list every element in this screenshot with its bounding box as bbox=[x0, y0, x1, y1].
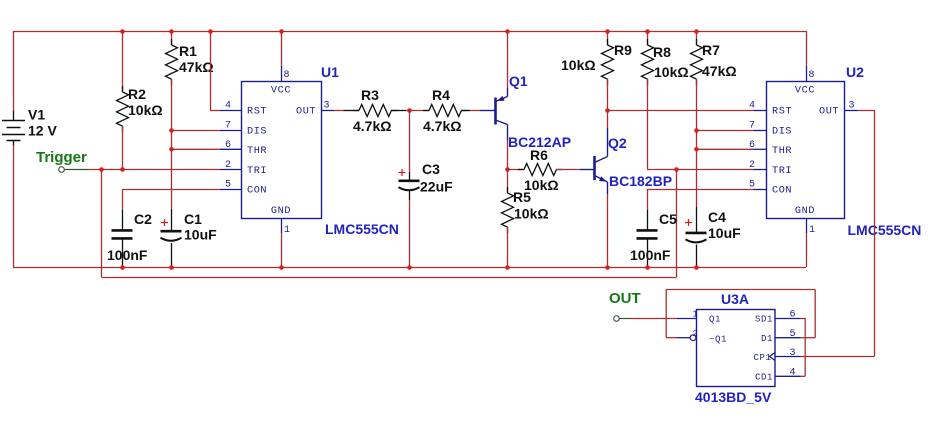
junction U1 VCC on rail bbox=[279, 29, 284, 34]
wire R3 to R4 bbox=[406, 110, 429, 112]
wire U1 OUT to R3 bbox=[334, 110, 344, 112]
junction C5 on ground rail bbox=[645, 265, 650, 270]
U1 pin stubs left bbox=[220, 110, 241, 112]
junction Q1 emitter on VCC rail bbox=[505, 29, 510, 34]
svg-text:2: 2 bbox=[225, 160, 232, 171]
svg-text:4: 4 bbox=[790, 368, 797, 379]
junction R2 top on VCC rail bbox=[120, 29, 125, 34]
junction C3 on ground rail bbox=[407, 265, 412, 270]
svg-text:LMC555CN: LMC555CN bbox=[325, 221, 399, 237]
wire TRI row to U1 pin 2 bbox=[88, 169, 220, 171]
wire CON row to U1 pin 5 bbox=[122, 189, 220, 191]
svg-text:3: 3 bbox=[324, 101, 331, 112]
junction R2 bottom on TRI row bbox=[120, 167, 125, 172]
svg-text:R5: R5 bbox=[513, 189, 531, 205]
svg-text:R2: R2 bbox=[128, 86, 146, 102]
flip-flop U3A 4013BD_5V box bbox=[697, 310, 776, 387]
resistor R8 bbox=[647, 31, 649, 45]
U2 pin 1 GND stub bbox=[806, 218, 808, 233]
wire R8 bottom to U2 TRI row bbox=[647, 169, 754, 171]
svg-text:C1: C1 bbox=[184, 211, 202, 227]
wire CP1 row to U2 OUT bbox=[801, 356, 875, 358]
junction trigger vertical on U2 TRI row bbox=[674, 167, 679, 172]
svg-text:3: 3 bbox=[790, 348, 797, 359]
U1 pin 3 OUT stub bbox=[321, 110, 334, 112]
Q1 emitter wire up to VCC rail bbox=[507, 88, 509, 97]
svg-text:CON: CON bbox=[247, 186, 267, 197]
svg-text:C4: C4 bbox=[708, 209, 726, 225]
svg-text:3: 3 bbox=[849, 101, 856, 112]
svg-text:Trigger: Trigger bbox=[36, 149, 87, 166]
svg-text:10kΩ: 10kΩ bbox=[128, 102, 163, 118]
resistor R2 bbox=[122, 31, 124, 92]
svg-text:VCC: VCC bbox=[795, 85, 815, 96]
wire SD1-CD1 tie vertical bbox=[804, 318, 806, 376]
svg-text:RST: RST bbox=[247, 107, 267, 118]
U3A pin 4 stub CD1 bbox=[775, 375, 801, 377]
junction C3 tap bbox=[407, 108, 412, 113]
wire DIS row to U2 pin 7 bbox=[696, 130, 754, 132]
svg-text:8: 8 bbox=[284, 70, 291, 81]
svg-text:10kΩ: 10kΩ bbox=[561, 57, 596, 73]
svg-text:5: 5 bbox=[225, 180, 232, 191]
svg-text:OUT: OUT bbox=[819, 107, 839, 118]
svg-text:R8: R8 bbox=[653, 44, 671, 60]
wire trigger bottom rail bbox=[102, 277, 677, 279]
U3A pin 1 stub Q1 output bbox=[677, 318, 697, 320]
svg-text:OUT: OUT bbox=[609, 290, 641, 307]
svg-text:100nF: 100nF bbox=[107, 247, 148, 263]
svg-text:22uF: 22uF bbox=[420, 179, 453, 195]
svg-text:Q2: Q2 bbox=[608, 135, 627, 151]
svg-text:7: 7 bbox=[225, 121, 232, 132]
svg-text:SD1: SD1 bbox=[755, 315, 773, 325]
U2 pin 3 OUT stub bbox=[844, 110, 858, 112]
wire VCC top rail bbox=[13, 31, 806, 33]
svg-text:TRI: TRI bbox=[772, 166, 792, 177]
junction RST vertical on VCC rail bbox=[208, 29, 213, 34]
wire SD1 to tie vertical bbox=[801, 318, 806, 320]
svg-text:4013BD_5V: 4013BD_5V bbox=[695, 389, 772, 405]
svg-text:47kΩ: 47kΩ bbox=[702, 63, 737, 79]
wire battery positive vertical bbox=[13, 31, 15, 111]
wire RST row to U1 pin 4 bbox=[210, 110, 220, 112]
junction trigger drop bbox=[99, 167, 104, 172]
svg-text:10uF: 10uF bbox=[184, 227, 217, 243]
resistor R3 bbox=[344, 110, 360, 112]
U3A pin 3 stub CP1 bbox=[775, 356, 801, 358]
svg-text:OUT: OUT bbox=[296, 107, 316, 118]
wire notQ1 feedback left vertical bbox=[665, 290, 667, 338]
svg-text:C2: C2 bbox=[134, 211, 152, 227]
svg-text:C5: C5 bbox=[659, 211, 677, 227]
svg-text:GND: GND bbox=[795, 206, 815, 217]
junction THR node bbox=[169, 147, 174, 152]
svg-text:2: 2 bbox=[693, 329, 699, 339]
svg-text:4.7kΩ: 4.7kΩ bbox=[353, 118, 391, 134]
svg-text:U2: U2 bbox=[846, 64, 864, 80]
svg-text:DIS: DIS bbox=[247, 127, 267, 138]
svg-text:~Q1: ~Q1 bbox=[709, 335, 727, 345]
U3A pin 2 stub notQ1 output with bubble bbox=[677, 337, 690, 339]
svg-text:5: 5 bbox=[749, 180, 756, 191]
junction Q2 emitter on ground rail bbox=[605, 265, 610, 270]
wire D1 stub to feedback bbox=[801, 337, 816, 339]
wire feedback top bbox=[666, 289, 815, 291]
svg-text:1: 1 bbox=[693, 310, 699, 320]
svg-text:10kΩ: 10kΩ bbox=[654, 64, 689, 80]
battery V1 bbox=[13, 111, 15, 121]
wire CON row to U2 pin 5 bbox=[647, 189, 754, 191]
transistor Q1 BC212AP bbox=[494, 98, 497, 125]
svg-text:47kΩ: 47kΩ bbox=[179, 59, 214, 75]
svg-text:10uF: 10uF bbox=[708, 225, 741, 241]
svg-text:1: 1 bbox=[284, 225, 291, 236]
wire feedback right vertical to D1 bbox=[814, 290, 816, 338]
svg-text:R6: R6 bbox=[530, 147, 548, 163]
svg-text:VCC: VCC bbox=[271, 85, 291, 96]
junction Q1 collector / R6 / R5 bbox=[505, 167, 510, 172]
op-amp U1 timer LMC555CN box bbox=[242, 82, 322, 219]
wire notQ1 to feedback corner bbox=[666, 337, 677, 339]
svg-text:2: 2 bbox=[749, 160, 756, 171]
svg-text:GND: GND bbox=[271, 206, 291, 217]
resistor R7 bbox=[696, 31, 698, 45]
resistor R9 bbox=[607, 31, 609, 45]
junction R9 top on VCC rail bbox=[605, 29, 610, 34]
svg-text:Q1: Q1 bbox=[509, 73, 528, 89]
junction R7 / U2 THR bbox=[694, 147, 699, 152]
U3A clock wedge bbox=[770, 353, 776, 361]
svg-text:R4: R4 bbox=[432, 87, 450, 103]
op-amp U2 timer LMC555CN box bbox=[767, 82, 845, 219]
svg-text:10kΩ: 10kΩ bbox=[514, 206, 549, 222]
svg-text:6: 6 bbox=[749, 140, 756, 151]
wire ground bottom rail bbox=[13, 267, 806, 269]
svg-text:8: 8 bbox=[809, 70, 816, 81]
node OUT terminal bbox=[614, 316, 620, 322]
capacitor C1 bbox=[171, 209, 173, 231]
capacitor C3 bbox=[409, 110, 411, 172]
svg-text:5: 5 bbox=[790, 329, 797, 340]
svg-text:V1: V1 bbox=[28, 107, 45, 123]
svg-text:U3A: U3A bbox=[721, 291, 749, 307]
wire U2 OUT to CP1 vertical bbox=[858, 110, 875, 112]
svg-text:RST: RST bbox=[772, 107, 792, 118]
wire trigger vertical drop bbox=[101, 170, 103, 278]
svg-text:CD1: CD1 bbox=[755, 373, 773, 383]
U1 pin 1 GND stub bbox=[281, 218, 283, 233]
svg-text:4: 4 bbox=[225, 101, 232, 112]
svg-text:THR: THR bbox=[247, 146, 267, 157]
svg-text:D1: D1 bbox=[761, 334, 773, 344]
junction U1 GND on ground rail bbox=[279, 265, 284, 270]
svg-text:U1: U1 bbox=[321, 64, 339, 80]
junction R7 / U2 DIS bbox=[694, 128, 699, 133]
svg-text:LMC555CN: LMC555CN bbox=[848, 222, 922, 238]
svg-text:Q1: Q1 bbox=[709, 315, 721, 325]
svg-text:4: 4 bbox=[749, 101, 756, 112]
svg-text:R3: R3 bbox=[361, 87, 379, 103]
svg-text:R7: R7 bbox=[702, 42, 720, 58]
junction R1 top on VCC rail bbox=[169, 29, 174, 34]
wire DIS row to U1 pin 7 bbox=[171, 130, 220, 132]
wire R6 to Q2 base bbox=[580, 169, 595, 171]
resistor R1 bbox=[171, 31, 173, 45]
junction R9 bottom / Q2 collector / U2 RST bbox=[605, 108, 610, 113]
wire OUT to U3A pin 1 bbox=[630, 318, 677, 320]
junction C1 on ground rail bbox=[169, 265, 174, 270]
U3A pin 6 stub SD1 bbox=[775, 318, 801, 320]
wire RST row to U2 pin 4 bbox=[607, 110, 754, 112]
wire battery negative vertical bbox=[13, 145, 15, 267]
wire R1 bottom to DIS/THR/C1 vertical bbox=[171, 79, 173, 209]
svg-text:CON: CON bbox=[772, 186, 792, 197]
capacitor C4 bbox=[696, 207, 698, 233]
wire R4 to Q1 base bbox=[470, 110, 480, 112]
transistor Q2 BC182BP bbox=[593, 156, 596, 180]
wire THR row to U1 pin 6 bbox=[171, 148, 220, 150]
junction DIS node bbox=[169, 128, 174, 133]
wire CD1 stub to tie bbox=[801, 375, 806, 377]
svg-text:R9: R9 bbox=[614, 42, 632, 58]
svg-text:7: 7 bbox=[749, 121, 756, 132]
node Trigger input terminal bbox=[59, 167, 65, 173]
Q2 collector wire up to RST node bbox=[607, 128, 609, 157]
svg-text:TRI: TRI bbox=[247, 166, 267, 177]
resistor R4 bbox=[429, 110, 431, 112]
svg-text:C3: C3 bbox=[422, 161, 440, 177]
wire CON drop to C2 bbox=[122, 189, 124, 210]
junction C2 on ground rail bbox=[120, 265, 125, 270]
svg-text:THR: THR bbox=[772, 146, 792, 157]
svg-text:BC182BP: BC182BP bbox=[609, 173, 672, 189]
svg-text:DIS: DIS bbox=[772, 127, 792, 138]
U2 pin stubs left bbox=[754, 110, 767, 112]
svg-text:CP1: CP1 bbox=[753, 353, 771, 363]
capacitor C5 bbox=[647, 210, 649, 230]
resistor R6 bbox=[508, 169, 525, 171]
U2 pin 8 VCC stub bbox=[806, 31, 808, 66]
svg-text:1: 1 bbox=[809, 225, 816, 236]
svg-text:6: 6 bbox=[225, 140, 232, 151]
U3A pin 5 stub D1 bbox=[775, 337, 801, 339]
Q2 emitter wire down to ground rail bbox=[607, 182, 609, 194]
wire CON drop to C5 bbox=[647, 189, 649, 210]
capacitor C2 bbox=[122, 210, 124, 230]
wire C3 to ground rail bbox=[409, 200, 411, 267]
wire THR row to U2 pin 6 bbox=[696, 148, 754, 150]
Q1 collector wire down bbox=[507, 125, 509, 141]
resistor R5 bbox=[507, 170, 509, 194]
junction R7 top on VCC rail bbox=[694, 29, 699, 34]
junction R8 top on VCC rail bbox=[645, 29, 650, 34]
svg-text:6: 6 bbox=[790, 310, 797, 321]
svg-text:100nF: 100nF bbox=[630, 247, 671, 263]
svg-text:R1: R1 bbox=[179, 43, 197, 59]
wire trigger rail to U2 TRI vertical bbox=[676, 170, 678, 278]
junction C4 on ground rail bbox=[694, 265, 699, 270]
svg-text:4.7kΩ: 4.7kΩ bbox=[423, 118, 461, 134]
U1 pin 8 VCC stub bbox=[281, 31, 283, 66]
svg-text:12 V: 12 V bbox=[28, 123, 57, 139]
wire RST pull-up vertical bbox=[210, 31, 212, 110]
junction R5 on ground rail bbox=[505, 265, 510, 270]
